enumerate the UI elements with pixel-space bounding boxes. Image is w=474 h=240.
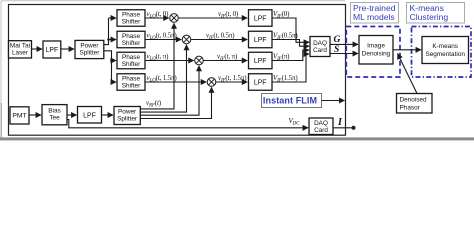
DAQ card 1 <box>310 37 330 57</box>
svg-text:Phase: Phase <box>122 11 141 18</box>
wire denoising to kmeans <box>393 49 421 51</box>
wire LPF R4 to DAQ1 <box>272 54 309 82</box>
label box K-means clustering <box>407 3 465 24</box>
wire M1 to LPF R1 <box>178 17 247 19</box>
svg-text:Mai Tai: Mai Tai <box>10 43 30 50</box>
svg-text:Shifter: Shifter <box>122 61 141 68</box>
svg-text:LPF: LPF <box>83 112 96 119</box>
svg-text:Denoised: Denoised <box>400 97 427 104</box>
mixer M1 <box>170 14 179 23</box>
outer frame <box>1 0 345 2</box>
phase shifter PH4 <box>117 74 145 91</box>
wire PS1 lower branch <box>104 51 112 82</box>
dashed box ML models <box>346 27 400 78</box>
bias tee <box>42 105 67 125</box>
wire into phase shifter 1 <box>109 17 117 19</box>
node junction <box>110 59 113 62</box>
mixer M4 <box>207 78 216 87</box>
image denoising box <box>359 36 393 65</box>
k-means segmentation box <box>422 37 469 64</box>
svg-text:Segmentation: Segmentation <box>425 51 465 58</box>
svg-text:PMT: PMT <box>12 113 26 120</box>
phase shifter PH1 <box>117 10 145 27</box>
wire PH3 to mixer M3 <box>145 60 194 62</box>
svg-text:Power: Power <box>118 108 137 115</box>
svg-text:K-means: K-means <box>432 43 458 50</box>
svg-text:Phase: Phase <box>122 54 141 61</box>
svg-text:Shifter: Shifter <box>122 18 141 25</box>
svg-text:Splitter: Splitter <box>117 115 138 122</box>
svg-text:Bias: Bias <box>48 108 60 115</box>
wire into phase shifter 2 <box>109 39 117 41</box>
svg-text:Shifter: Shifter <box>122 82 141 89</box>
svg-text:Splitter: Splitter <box>79 49 100 56</box>
wire LPF R2 to DAQ1 <box>272 40 309 47</box>
wire PMT to bias tee <box>29 114 41 116</box>
wire M2 to LPF R2 <box>191 39 247 41</box>
svg-text:DAQ: DAQ <box>313 40 327 47</box>
phase shifter PH3 <box>117 52 145 69</box>
PMT <box>10 107 29 124</box>
wire into phase shifter 4 <box>112 81 117 83</box>
wire instant FLIM arrow <box>322 100 345 102</box>
wire LPF R3 to DAQ1 <box>272 50 309 60</box>
wire M3 to LPF R3 <box>203 60 247 62</box>
wire LPF1 to power splitter PS1 <box>61 48 74 50</box>
instant FLIM box <box>262 94 322 108</box>
svg-text:Phasor: Phasor <box>400 105 421 112</box>
svg-text:Phase: Phase <box>122 75 141 82</box>
mixer M3 <box>195 56 204 65</box>
wire PH2 to mixer M2 <box>145 39 181 41</box>
wire I output <box>333 127 353 129</box>
wire M4 to LPF R4 <box>216 81 247 83</box>
wire RF to mixer M2 <box>140 45 186 112</box>
power splitter PS1 <box>75 40 104 58</box>
wire S output <box>330 53 358 55</box>
laser Mai Tai <box>9 41 32 58</box>
svg-text:Phase: Phase <box>122 33 141 40</box>
wire PH4 to mixer M4 <box>145 81 206 83</box>
svg-text:Card: Card <box>314 127 328 134</box>
wire G output <box>330 43 358 45</box>
svg-text:LPF: LPF <box>254 79 267 86</box>
main system box <box>9 5 346 136</box>
svg-text:Image: Image <box>367 43 385 50</box>
svg-text:Card: Card <box>313 47 327 54</box>
LPF R2 <box>249 31 273 48</box>
svg-text:Denoising: Denoising <box>362 51 391 58</box>
wire bias tee to LPF B <box>67 114 77 116</box>
wire RF to mixer M1 <box>140 23 174 109</box>
svg-text:DAQ: DAQ <box>314 120 328 127</box>
svg-text:Shifter: Shifter <box>122 40 141 47</box>
power splitter PS2 <box>114 107 140 125</box>
wire into phase shifter 3 <box>112 60 117 62</box>
LPF R4 <box>249 74 273 91</box>
svg-text:Power: Power <box>80 42 99 49</box>
wire laser to LPF1 <box>32 48 43 50</box>
label box pre-trained ML models <box>351 3 399 24</box>
svg-text:LPF: LPF <box>46 47 59 54</box>
wire PS1 upper branch <box>104 18 109 45</box>
LPF R3 <box>249 52 273 69</box>
svg-text:LPF: LPF <box>254 15 267 22</box>
svg-text:S: S <box>334 45 339 55</box>
wire VDC from bias tee to DAQ2 <box>67 120 308 128</box>
denoised phasor box <box>397 94 433 114</box>
phase shifter PH2 <box>117 31 145 48</box>
svg-text:Tee: Tee <box>49 115 60 122</box>
LPF B <box>78 107 102 124</box>
LPF L1 <box>43 41 61 58</box>
wire denoised phasor pointer <box>398 54 417 94</box>
svg-text:Clustering: Clustering <box>410 12 449 22</box>
DAQ card 2 <box>309 118 333 135</box>
wire LPF R1 to DAQ1 <box>272 18 309 42</box>
wire RF to mixer M3 <box>140 66 199 115</box>
svg-text:LPF: LPF <box>254 37 267 44</box>
node dot I <box>352 126 356 130</box>
node junction <box>107 38 110 41</box>
wire LPF B to power splitter PS2 <box>102 114 114 116</box>
svg-text:ML models: ML models <box>353 12 395 22</box>
mixer M2 <box>182 35 191 44</box>
svg-text:LPF: LPF <box>254 58 267 65</box>
LPF R1 <box>249 10 273 27</box>
svg-text:G: G <box>334 35 341 45</box>
svg-text:Instant FLIM: Instant FLIM <box>263 96 317 106</box>
wire PH1 to mixer M1 <box>145 17 169 19</box>
dash-dot box K-means <box>412 27 472 78</box>
svg-text:Laser: Laser <box>12 50 29 57</box>
wire RF to mixer M4 <box>140 87 211 118</box>
